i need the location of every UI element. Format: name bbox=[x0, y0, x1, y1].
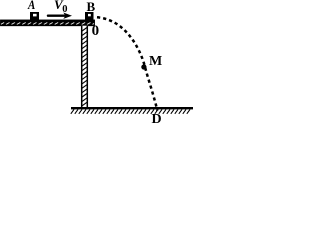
ground hatch ticks bbox=[71, 109, 190, 113]
label 0 (origin at table edge) bbox=[92, 23, 100, 40]
label D (landing point) bbox=[152, 112, 162, 128]
vertical wall post under table edge bbox=[81, 26, 88, 108]
dashed projectile trajectory from B to D bbox=[97, 17, 157, 110]
block at A (sliding object) bbox=[30, 12, 39, 20]
point M marker dot on trajectory bbox=[141, 64, 146, 69]
velocity arrow v0 (pointing right) bbox=[48, 13, 72, 19]
label v (initial velocity symbol) bbox=[54, 0, 63, 13]
label B (table edge point) bbox=[87, 0, 96, 15]
ground line bbox=[71, 107, 193, 109]
label 0 (subscript of v0) bbox=[62, 4, 67, 15]
label A (start point) bbox=[28, 0, 35, 13]
table surface (hatched horizontal bar A to B) bbox=[1, 20, 95, 26]
block at B (object at table edge) bbox=[85, 12, 94, 20]
label M (point on trajectory) bbox=[149, 54, 162, 70]
